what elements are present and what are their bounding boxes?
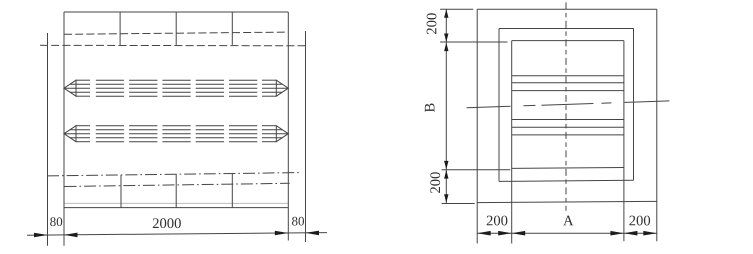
right view: dim arrow down at y=202.7 <box>444 194 448 203</box>
right view: rotated dimension text 200 (bottom) <box>430 172 440 193</box>
right view: outer frame top edge <box>477 8 657 10</box>
right view: extension line at outer bottom <box>442 203 475 205</box>
left view: lower center line 1 <box>47 173 301 176</box>
left view: dim arrow at x=288.3 pointing right <box>275 231 289 236</box>
flow arrow row 1: right hollow arrowhead <box>276 80 288 96</box>
left view: faint inner frame line <box>64 202 288 204</box>
right view: dim arrow left at x=511.7 <box>512 231 526 236</box>
left view: right outer extension line <box>305 31 307 242</box>
right view: dimension text A <box>563 216 573 226</box>
right view: rotated dimension text 200 (top) <box>427 13 437 34</box>
left view: bottom panel tick 3 <box>231 174 233 208</box>
left view: bottom panel tick 2 <box>175 174 177 207</box>
left view: top panel tick 3 <box>231 12 233 45</box>
right view: middle frame left edge <box>498 29 500 182</box>
left view: lower center line 2 <box>65 183 290 186</box>
flow arrow row 1: line group 4 <box>196 80 224 96</box>
left view: left outer extension line <box>47 33 49 246</box>
right view: dim arrow down at y=42 <box>444 34 448 43</box>
left view: dim arrow at x=47.5 pointing right <box>34 233 48 238</box>
right view: dim arrow up at y=42.6 <box>444 43 448 52</box>
right view: extension line at inner top <box>440 41 507 43</box>
flow arrow row 1: right tail lines <box>262 80 288 96</box>
flow arrow row 2: line group 4 <box>196 126 224 142</box>
right view: dim arrow up at y=9.2 <box>444 9 448 18</box>
right view: inner frame left edge with extension <box>511 41 513 244</box>
flow arrow row 2: line group 3 <box>162 126 190 142</box>
flow arrow row 2: line group 5 <box>229 126 257 142</box>
right view: middle frame bottom edge <box>499 180 634 181</box>
right view: louver blade line 3 <box>512 90 624 92</box>
right view: bottom dimension line <box>477 232 657 234</box>
left view: bottom panel tick 1 <box>120 175 122 208</box>
right view: dim arrow right at x=658.4 <box>643 231 657 236</box>
flow arrow row 2: right tail lines <box>262 126 288 142</box>
right view: middle frame right edge <box>633 29 635 181</box>
left view: dimension text 80 (right) <box>292 217 304 226</box>
right view: louver blade line 4 <box>512 119 624 121</box>
right view: outer frame left edge with extension <box>476 9 478 243</box>
flow arrow row 2: line group 1 <box>96 126 124 142</box>
right view: horizontal center line <box>467 101 671 108</box>
left view: top panel tick 1 <box>119 12 121 45</box>
right view: louver blade line 1 <box>512 75 624 77</box>
left view: frame bottom edge <box>64 207 288 209</box>
left view: dimension text 80 (left) <box>50 217 62 226</box>
flow arrow row 2: line group 2 <box>129 126 157 142</box>
flow arrow row 1: line group 2 <box>129 80 157 96</box>
right view: top-left extension line <box>440 8 473 10</box>
left view: upper hidden line 2 <box>40 44 306 47</box>
right view: dim arrow right at x=623.9 <box>610 231 624 236</box>
flow arrow row 1: line group 5 <box>229 80 257 96</box>
right view: middle frame top edge <box>499 28 634 30</box>
right view: dim arrow up at y=170.1 <box>444 170 448 179</box>
left view: dim arrow at x=64 pointing left <box>64 233 78 238</box>
right view: inner frame bottom edge <box>512 167 624 170</box>
left view: frame left edge with extension <box>63 12 65 246</box>
right view: dim arrow left at x=623.9 <box>624 231 638 236</box>
right view: extension line at inner bottom <box>442 169 511 171</box>
right view: dimension text 200 (bottom right) <box>629 216 650 226</box>
right view: dim arrow left at x=477.3 <box>477 231 491 236</box>
right view: outer frame bottom edge <box>477 201 657 202</box>
flow arrow row 2: left hollow arrowhead <box>64 126 76 142</box>
right view: dim arrow down at y=169.4 <box>444 161 448 170</box>
right view: louver blade line 5 <box>512 126 624 128</box>
flow arrow row 1: left tail lines <box>64 80 90 96</box>
flow arrow row 1: line group 3 <box>162 80 190 96</box>
right view: inner frame top edge <box>512 40 624 42</box>
right view: louver blade line 6 <box>512 134 624 136</box>
right view: vertical center line <box>565 2 567 210</box>
right view: louver blade line 2 <box>512 82 624 84</box>
left view: top panel tick 2 <box>175 12 177 45</box>
left view: frame top edge <box>64 11 288 13</box>
left view: frame right edge with extension <box>287 12 289 241</box>
right view: rotated dimension text B <box>425 103 435 112</box>
left view: dimension text 2000 <box>153 218 181 228</box>
left view: bottom dimension line <box>27 233 327 236</box>
flow arrow row 2: left tail lines <box>64 126 90 142</box>
right view: dim arrow right at x=511.7 <box>498 231 512 236</box>
right view: outer frame right edge with extension <box>656 9 658 241</box>
flow arrow row 1: line group 1 <box>96 80 124 96</box>
right view: dimension text 200 (bottom left) <box>487 216 508 226</box>
right view: left vertical dimension line <box>445 9 447 203</box>
flow arrow row 2: right hollow arrowhead <box>276 126 288 142</box>
flow arrow row 1: left hollow arrowhead <box>64 80 76 96</box>
right view: inner frame right edge with extension <box>623 41 625 242</box>
left view: upper hidden line 1 <box>64 32 288 34</box>
left view: dim arrow at x=305.5 pointing left <box>306 231 320 236</box>
